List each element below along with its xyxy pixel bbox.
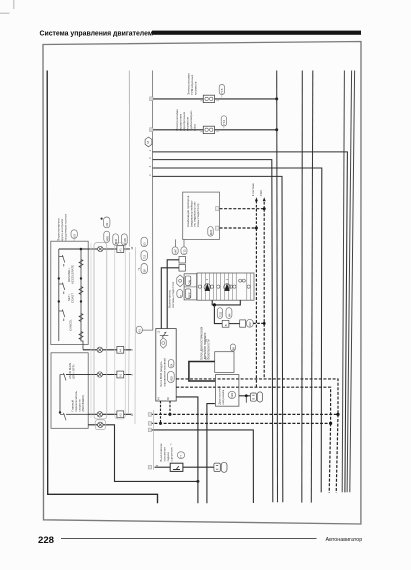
CAN dashed vertical down left xyxy=(255,228,257,387)
svg-text:безопасности: безопасности xyxy=(206,339,210,359)
junction dot wire4b/BCM drop xyxy=(196,480,199,483)
connector capsule above cruise box xyxy=(71,230,77,241)
safety diode strip box U-DIODE xyxy=(197,273,254,300)
svg-text:М47: М47 xyxy=(174,248,178,254)
footnote text under clutch label xyxy=(161,443,173,446)
switch common line left xyxy=(58,249,60,341)
svg-text:228: 228 xyxy=(38,535,55,546)
airbag link wire y=323.6 xyxy=(229,323,240,325)
capsule G7 above clutch switch xyxy=(177,452,184,459)
ON button xyxy=(185,276,191,285)
switch SET/COAST contact xyxy=(59,283,65,295)
label: main switch text xyxy=(71,390,86,411)
bus vertical B4 x=344.3 xyxy=(342,71,344,493)
switch common link in U-SW2 xyxy=(59,375,61,413)
clutch switch component xyxy=(170,463,183,471)
svg-text:сора: сора xyxy=(193,124,197,131)
svg-text:сцепления: сцепления xyxy=(170,447,174,461)
gray pin square clutch wire xyxy=(148,465,151,469)
bus vertical B6 x=354 xyxy=(350,71,355,493)
solenoid valve component K1 xyxy=(203,95,214,102)
square connector S4 xyxy=(117,411,124,418)
switch CANCEL contact xyxy=(59,310,65,322)
pin square on leader for V2 xyxy=(150,128,153,132)
airbag capsule M17 xyxy=(246,319,253,327)
svg-text:ACCELERATE: ACCELERATE xyxy=(70,265,74,284)
gray harness leader L1 x=129 xyxy=(128,71,130,247)
switch RESUME/ACCELERATE contact xyxy=(59,255,65,267)
square connector S3 xyxy=(117,371,124,378)
svg-text:OFF: OFF xyxy=(187,292,191,298)
dashed vertical drop right A xyxy=(336,414,338,493)
label: airbag diagnosis sensor unit xyxy=(200,326,211,359)
cruise switch box U-SW1 xyxy=(51,241,88,344)
label RESUME/ACCELERATE xyxy=(67,265,75,284)
gray connector column A xyxy=(94,243,107,420)
gray harness leader L2 x=135.5 xyxy=(134,247,137,424)
gray pin square wire H5 start xyxy=(148,428,151,432)
wire4b lower output y=424.4 xyxy=(88,425,198,482)
inline connector circle J5 xyxy=(98,422,103,427)
svg-text:И3: И3 xyxy=(73,234,77,238)
label ASCD MAIN xyxy=(68,363,76,379)
svg-text:А3: А3 xyxy=(118,413,122,417)
pin square on leader for V1 xyxy=(150,97,153,101)
svg-text:Б3: Б3 xyxy=(143,242,147,246)
wire down from strip dot xyxy=(214,305,222,324)
junction dots cruise commons xyxy=(80,248,83,251)
chain square Q1 xyxy=(179,256,185,263)
inline plug pair at DLC xyxy=(250,392,262,402)
square connector S2 xyxy=(117,346,124,353)
capsule E105 above column B xyxy=(121,234,127,245)
svg-text:Г15: Г15 xyxy=(220,88,224,93)
gray connector box A2 xyxy=(95,420,105,430)
BCM internal switch glyph xyxy=(160,332,169,338)
svg-text:А3: А3 xyxy=(138,329,142,333)
meter to chain stub 1 xyxy=(174,239,176,246)
main frame xyxy=(43,42,361,525)
svg-text:кий разъём: кий разъём xyxy=(221,390,225,405)
bus vertical B1 x=276.7 xyxy=(276,71,279,503)
chain square Q2 xyxy=(179,265,185,272)
label: BCM text xyxy=(159,358,167,386)
footer rule xyxy=(61,538,317,540)
power feed wire L3 x=152.5 (to node A3 capsule) xyxy=(142,71,152,331)
square connector S1 xyxy=(117,246,124,253)
main speed limiter switch box U-SW2 xyxy=(51,353,88,429)
meter to chain stub 2 xyxy=(183,239,185,246)
wire2 resistor chain output y=349.8 xyxy=(83,349,131,351)
dashed CAN wire from meter pin1 xyxy=(220,208,265,210)
DLC bottom output wire xyxy=(207,404,215,504)
pin labels for W-A..W-D xyxy=(149,149,152,176)
CAN arrow up right xyxy=(263,197,266,208)
CAN dashed vertical down right xyxy=(263,209,265,380)
BCM capsule M18 xyxy=(168,371,175,382)
junction dot V1/B1 xyxy=(275,97,278,100)
label: steering wheel cruise switches xyxy=(56,214,67,241)
svg-text:А1: А1 xyxy=(118,248,122,252)
svg-text:Г16: Г16 xyxy=(222,120,226,125)
junction dot CAN1 xyxy=(263,207,266,210)
clutch switch left wire xyxy=(155,466,171,468)
wire V2 (turbo wastegate solenoid) xyxy=(153,129,277,131)
svg-text:Е4: Е4 xyxy=(170,363,174,367)
svg-text:*1: *1 xyxy=(137,267,141,270)
start/stop hexagon indicator xyxy=(177,275,184,287)
wire W-B y=159.6 with corner down xyxy=(153,160,273,503)
BCM CAN-L dashed output xyxy=(176,387,330,423)
wire W-C y=168 with corner down xyxy=(153,168,322,492)
wire4 y=412.5 xyxy=(88,413,131,415)
BCM pin labels xyxy=(157,330,170,400)
svg-text:(ВКЛ/ВЫКЛ): (ВКЛ/ВЫКЛ) xyxy=(81,395,85,411)
svg-text:М36: М36 xyxy=(114,238,118,244)
dashed bus H3 y=414.4 xyxy=(150,413,338,415)
svg-text:темы старт/стоп): темы старт/стоп) xyxy=(196,203,200,227)
meter CAN pin 1 xyxy=(216,207,219,211)
diode triangle D1 xyxy=(204,283,211,291)
svg-text:А2: А2 xyxy=(118,373,122,377)
svg-text:на рулевом колесе: на рулевом колесе xyxy=(63,214,67,241)
ASCD MAIN switch contact xyxy=(60,373,88,381)
airbag square 2 xyxy=(240,320,246,327)
BCM CAN-H dashed output xyxy=(176,379,338,415)
airbag wire to CAN vertical xyxy=(253,322,264,324)
capsules T1-T3 right of wire1 end xyxy=(141,237,147,274)
resistor zigzag R3 xyxy=(79,314,83,322)
svg-text:зг: зг xyxy=(179,295,182,297)
gray harness leader L1b lower segment xyxy=(129,252,130,413)
label: intake valve solenoid text xyxy=(186,73,197,95)
gray pin square bus H4 start xyxy=(148,422,151,426)
dashed vertical drop right B xyxy=(329,423,330,493)
start/stop capsule lower xyxy=(177,290,183,298)
label SET/COAST xyxy=(67,293,75,303)
connector capsule F15 for valve K1 xyxy=(219,85,224,98)
airbag square K xyxy=(222,320,229,327)
wire W-a from Q1 down to BCM pin xyxy=(167,260,179,329)
inline plug pair clutch xyxy=(214,462,227,472)
svg-text:Г111: Г111 xyxy=(218,311,222,317)
label: turbo solenoid text xyxy=(175,109,197,131)
dashed bus H4 y=423.4 xyxy=(150,422,331,424)
junction dot V2/B1 xyxy=(275,128,278,131)
gray pin square bus H3 start xyxy=(148,413,151,417)
diode triangle D2 xyxy=(224,283,231,291)
svg-text:Г12: Г12 xyxy=(143,254,147,259)
clutch switch right wire xyxy=(183,466,214,468)
BCM bottom dashed stub 2 xyxy=(160,401,162,423)
inline connector circle J2 xyxy=(97,347,102,352)
svg-text:CANCEL: CANCEL xyxy=(69,319,73,331)
svg-text:М18: М18 xyxy=(169,376,173,382)
safety sensor box U-SRS xyxy=(215,352,234,373)
header bar xyxy=(152,31,361,35)
svg-text:М24: М24 xyxy=(209,229,213,235)
capsule G13 xyxy=(181,247,187,255)
capsule M47 xyxy=(172,247,178,255)
BCM capsule E4 xyxy=(168,359,174,368)
airbag capsule pair xyxy=(217,308,232,319)
svg-text:М95: М95 xyxy=(105,236,109,242)
page-reference hexagon 5 xyxy=(145,137,152,147)
bus vertical B3 x=312.4 xyxy=(311,71,313,503)
CAN arrow up left xyxy=(255,197,258,228)
capsule M22 in DLC xyxy=(228,391,235,398)
svg-text:В: В xyxy=(224,324,228,326)
svg-text:Система управления двигателем: Система управления двигателем xyxy=(40,30,153,37)
svg-text:М22: М22 xyxy=(230,392,234,398)
svg-text:CAN: CAN xyxy=(259,190,263,196)
capsule B9 above SRS box xyxy=(230,344,235,351)
BCM right solid output to drop xyxy=(176,397,198,503)
svg-text:Б8: Б8 xyxy=(143,269,147,273)
svg-text:М17: М17 xyxy=(248,321,252,327)
label: diagnostic connector xyxy=(218,386,226,405)
gray harness leader at clutch column xyxy=(153,410,155,470)
bus vertical B5 x=351.3 xyxy=(347,71,352,493)
inline connector circle J4 xyxy=(97,412,102,417)
svg-text:Автонавигатор: Автонавигатор xyxy=(326,537,363,543)
BCM bottom dashed stub 1 xyxy=(169,401,171,414)
strip inline plug pair right xyxy=(239,279,246,282)
svg-text:К системе: К системе xyxy=(251,183,255,196)
strip top labels xyxy=(206,278,229,280)
start/stop button cell box xyxy=(184,274,197,300)
node A3 capsule xyxy=(136,326,142,333)
inline connector circle J1 xyxy=(98,246,103,251)
meter CAN pin 2 xyxy=(216,226,219,230)
junction dot under strip xyxy=(213,303,216,306)
capsule M95 above column A xyxy=(104,231,110,242)
svg-text:(ON / OFF): (ON / OFF) xyxy=(72,365,76,379)
gray harness leader beside cruise box xyxy=(90,243,92,418)
wire3 y=374.5 xyxy=(88,374,131,376)
pin labels right of squares xyxy=(131,246,134,416)
wire V1 (intake valve timing solenoid) xyxy=(153,98,277,100)
svg-text:М4: М4 xyxy=(227,313,231,317)
resistor zigzag R2 xyxy=(79,287,83,295)
wire W-A y=151.9 with corner down xyxy=(153,152,348,493)
junction dot CAN2 xyxy=(255,227,258,230)
svg-text:И3: И3 xyxy=(105,222,109,226)
bus vertical B2 x=302.3 xyxy=(301,71,304,503)
corner crop mark xyxy=(0,0,14,13)
svg-text:системы старт/стоп: системы старт/стоп xyxy=(171,281,175,308)
asterisk mark near T3 xyxy=(137,267,141,270)
second switch contact xyxy=(60,413,88,421)
label: clutch pedal position switch xyxy=(159,443,174,461)
label: start/stop switch xyxy=(168,281,176,308)
OFF button xyxy=(185,289,191,298)
svg-text:клапанов: клапанов xyxy=(193,81,197,95)
gray connector column B xyxy=(115,243,125,420)
label: combination meter text xyxy=(186,195,200,227)
svg-text:Г13: Г13 xyxy=(182,249,186,254)
svg-text:управления кузовом): управления кузовом) xyxy=(162,358,166,386)
wire1 cruise output y=249 xyxy=(59,248,130,250)
svg-text:ON: ON xyxy=(187,280,191,284)
U-wire SRS to diag connector xyxy=(189,362,216,382)
svg-text:5: 5 xyxy=(147,141,149,145)
connector capsule F16 for valve K2 xyxy=(221,116,226,129)
svg-text:Е105: Е105 xyxy=(123,238,127,245)
resistor zigzag R4 bottom xyxy=(79,332,83,340)
combination meter box U-METER xyxy=(183,192,220,239)
strip bottom jumper wire xyxy=(212,300,240,305)
ground/frame wire G1 (thick stepped line left) xyxy=(47,71,157,504)
DLC right output wire xyxy=(239,395,251,397)
dashed CAN wire from meter pin2 xyxy=(220,227,257,229)
capsule M24 inside meter box xyxy=(208,227,213,237)
inline connector circle J3 xyxy=(97,372,102,377)
solid wire H5 y=429.9 xyxy=(150,430,254,503)
BCM hexagon capsule xyxy=(161,338,167,349)
solenoid valve component K2 xyxy=(203,126,214,133)
svg-text:А4: А4 xyxy=(118,349,122,353)
diagnostic connector box U-DLC xyxy=(216,375,239,407)
switch common line right (resistor chain) xyxy=(81,249,83,350)
svg-text:В9: В9 xyxy=(231,346,235,350)
capsule M36 above column B xyxy=(113,234,119,245)
BCM box U-BCM xyxy=(156,329,176,401)
wire W-b from Q2 down to BCM pin xyxy=(161,268,179,329)
capsule with star above column A xyxy=(101,217,110,228)
svg-text:COAST: COAST xyxy=(70,293,74,303)
wire W-D y=176.4 with corner down xyxy=(153,176,283,502)
resistor zigzag R1 xyxy=(79,260,83,268)
strip contact circles xyxy=(198,285,250,288)
label: to CAN system xyxy=(251,183,263,196)
